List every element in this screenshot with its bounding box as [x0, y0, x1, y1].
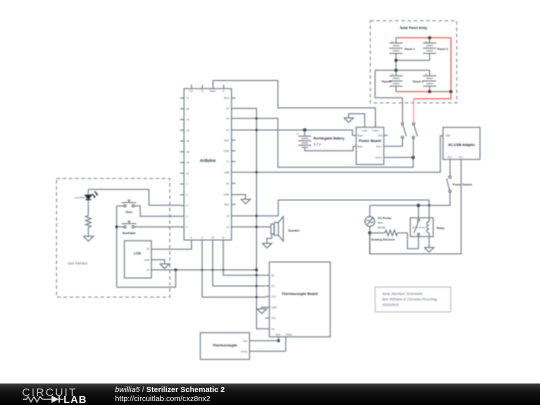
svg-text:3.7 V: 3.7 V [314, 143, 322, 147]
svg-text:AC-: AC- [459, 156, 463, 159]
svg-text:A2: A2 [186, 118, 190, 122]
svg-text:Speaker: Speaker [288, 229, 301, 233]
svg-text:A7: A7 [186, 171, 190, 175]
svg-text:Relay: Relay [437, 226, 445, 230]
svg-text:Yellow: Yellow [285, 334, 292, 337]
svg-text:Panel 4: Panel 4 [413, 79, 424, 83]
svg-text:LAB: LAB [64, 395, 87, 405]
svg-text:Panel 3: Panel 3 [437, 47, 448, 51]
svg-text:+: + [297, 132, 299, 136]
svg-text:Power Switch: Power Switch [453, 183, 473, 187]
svg-text:Batt+: Batt+ [210, 89, 217, 93]
svg-text:Load+: Load+ [372, 129, 379, 132]
svg-text:G: G [223, 89, 225, 93]
svg-text:AC+: AC+ [448, 156, 453, 159]
svg-text:GND: GND [271, 306, 277, 309]
svg-text:Red: Red [243, 340, 248, 343]
svg-text:Solar Sterilizer Schematic: Solar Sterilizer Schematic [382, 292, 423, 296]
svg-text:Load-: Load- [362, 129, 368, 132]
svg-text:Backlight: Backlight [122, 231, 135, 235]
svg-text:LCD: LCD [134, 252, 142, 256]
svg-text:USB: USB [445, 135, 450, 138]
svg-text:3V: 3V [226, 107, 229, 111]
svg-text:Solar Panel Array: Solar Panel Array [400, 26, 428, 30]
svg-text:GND: GND [224, 149, 230, 153]
svg-text:USB: USB [377, 135, 382, 138]
svg-text:Panel2: Panel2 [382, 79, 392, 83]
svg-text:A4: A4 [186, 139, 190, 143]
svg-text:Low Bat: Low Bat [74, 195, 84, 199]
svg-text:Panel 1: Panel 1 [405, 47, 416, 51]
svg-text:3V: 3V [146, 269, 149, 272]
svg-text:DCin-: DCin- [376, 145, 382, 148]
svg-text:Arduino: Arduino [200, 158, 216, 163]
svg-text:RST: RST [224, 138, 230, 142]
svg-text:Batt+: Batt+ [358, 135, 364, 138]
svg-text:AC-USB Adapter: AC-USB Adapter [448, 143, 475, 147]
svg-text:Thermocouple: Thermocouple [213, 343, 238, 347]
svg-text:Heating Element: Heating Element [371, 237, 395, 241]
svg-text:GND: GND [144, 259, 150, 262]
svg-text:bwillia5 / Sterilizer Schemati: bwillia5 / Sterilizer Schematic 2 [115, 385, 225, 394]
svg-text:A6: A6 [186, 161, 190, 165]
svg-text:5V: 5V [226, 181, 229, 185]
svg-text:CLK: CLK [271, 296, 276, 299]
svg-text:http://circuitlab.com/cxz8nx2: http://circuitlab.com/cxz8nx2 [115, 394, 210, 403]
svg-text:3V3: 3V3 [271, 317, 276, 320]
svg-text:60 Hz: 60 Hz [378, 225, 386, 229]
svg-text:GND: GND [224, 193, 230, 197]
svg-text:Thermocouple Board: Thermocouple Board [282, 292, 318, 296]
svg-text:A5: A5 [186, 150, 190, 154]
svg-text:AC Power: AC Power [378, 216, 393, 220]
svg-text:Ben Williams & Christian Firsc: Ben Williams & Christian Firsching [382, 298, 437, 302]
svg-text:CS: CS [271, 285, 275, 288]
svg-text:A3: A3 [186, 128, 190, 132]
svg-text:BLK: BLK [224, 203, 229, 207]
svg-text:BUS: BUS [224, 96, 230, 100]
svg-text:03/20/2015: 03/20/2015 [382, 303, 399, 307]
svg-text:Batt-: Batt- [358, 145, 363, 148]
svg-text:sine: sine [378, 221, 384, 225]
svg-text:A0: A0 [226, 117, 230, 121]
svg-text:Red: Red [276, 334, 281, 337]
svg-text:Vin: Vin [271, 328, 275, 331]
svg-text:DCin+: DCin+ [375, 157, 382, 160]
svg-text:Rechargable Battery: Rechargable Battery [314, 137, 345, 141]
svg-text:User Interface: User Interface [68, 261, 88, 265]
svg-text:Power Board: Power Board [359, 139, 381, 143]
svg-text:USB: USB [224, 170, 230, 174]
svg-text:Yellow: Yellow [240, 350, 247, 353]
svg-text:A1: A1 [226, 128, 230, 132]
svg-text:Start: Start [126, 210, 133, 214]
